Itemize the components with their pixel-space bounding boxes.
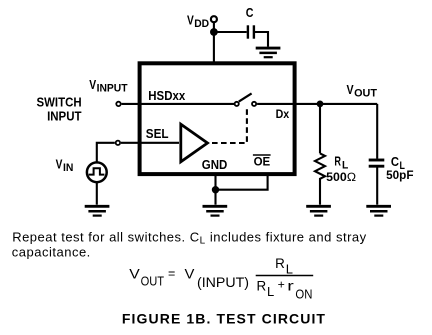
equation VOUT = V(INPUT) RL/(RL+rON) [129,255,313,302]
ground (under CL) [366,206,391,215]
svg-text:50pF: 50pF [386,168,413,182]
resistor RL [315,153,325,181]
wire switch to VOUT node [257,103,377,105]
wire VIN to ground [96,182,98,205]
label SWITCH INPUT [37,95,82,124]
ground (under GND pin) [203,206,228,215]
switch Dx (contacts and blade) [235,93,257,106]
svg-text:L: L [267,284,274,299]
wire junction down to RL [319,104,321,153]
svg-text:R: R [257,278,267,294]
svg-text:OUT: OUT [141,273,165,288]
svg-text:R: R [334,154,341,169]
svg-text:SEL: SEL [146,126,169,141]
svg-text:INPUT: INPUT [97,82,128,94]
wire VINPUT to switch [122,103,235,105]
capacitor CL [369,160,385,166]
svg-text:L: L [286,261,293,276]
svg-text:INPUT: INPUT [47,108,81,123]
label SEL [146,126,169,141]
pin GND wire [214,176,216,205]
label CL [391,154,405,172]
terminal SEL (open circle) [116,141,120,145]
label VINPUT [89,77,128,94]
wire SEL terminal to VIN source [97,143,115,162]
label VOUT [347,82,378,100]
buffer (triangle driver) [181,124,208,162]
svg-text:500Ω: 500Ω [326,170,356,184]
label 50pF [386,168,413,182]
svg-text:Dx: Dx [276,107,290,121]
label HSDxx [148,88,186,103]
note text [12,230,367,260]
capacitor C [248,25,254,38]
label VIN [56,156,74,174]
svg-text:=: = [168,266,175,281]
label RL [334,154,348,172]
ground (under RL) [306,206,331,215]
ground (for C) [256,48,281,57]
IC box HSDxx [140,63,295,174]
wire capacitor to ground [255,32,268,47]
node VDD label [187,12,209,30]
svg-text:V: V [129,266,140,282]
svg-text:V: V [185,266,196,282]
label C [246,5,254,20]
wire VDD vertical to box top [213,23,215,64]
label GND [202,157,228,172]
svg-text:V: V [56,156,63,171]
wire SEL to buffer [121,142,179,144]
label OE (with overline) [253,154,271,168]
svg-text:r: r [287,278,294,294]
svg-text:R: R [275,255,285,271]
ground (under VIN) [85,206,110,215]
svg-text:V: V [89,77,96,92]
wire VOUT down to CL [376,104,378,159]
svg-text:V: V [187,12,194,27]
svg-text:(INPUT): (INPUT) [197,274,249,290]
source VIN (pulse generator) [87,162,107,182]
wire VDD to capacitor C [214,31,247,33]
pin OE wire [216,176,268,190]
terminal VINPUT (open circle) [116,102,120,106]
svg-text:HSDxx: HSDxx [148,88,186,103]
svg-text:C: C [246,5,254,20]
junction dot GND/OE [212,186,219,193]
svg-text:ON: ON [295,287,312,302]
wire RL to ground [319,181,321,205]
wire dashed buffer to switch [212,108,247,144]
svg-text:IN: IN [63,162,73,174]
junction dot VOUT [317,101,324,108]
terminal VDD (open circle) [211,16,217,22]
junction dot VDD [210,28,218,36]
svg-text:+: + [278,277,285,291]
svg-text:FIGURE 1B. TEST CIRCUIT: FIGURE 1B. TEST CIRCUIT [122,310,326,326]
label 500ohm [326,170,356,184]
svg-text:V: V [347,82,354,97]
svg-text:DD: DD [194,18,209,30]
svg-text:GND: GND [202,157,228,172]
svg-text:C: C [391,154,400,169]
label Dx [276,107,290,121]
svg-text:OUT: OUT [354,88,377,100]
svg-text:OE: OE [254,154,271,168]
caption FIGURE 1B. TEST CIRCUIT [122,310,326,326]
wire CL to ground [376,167,378,205]
svg-text:capacitance.: capacitance. [12,245,91,260]
